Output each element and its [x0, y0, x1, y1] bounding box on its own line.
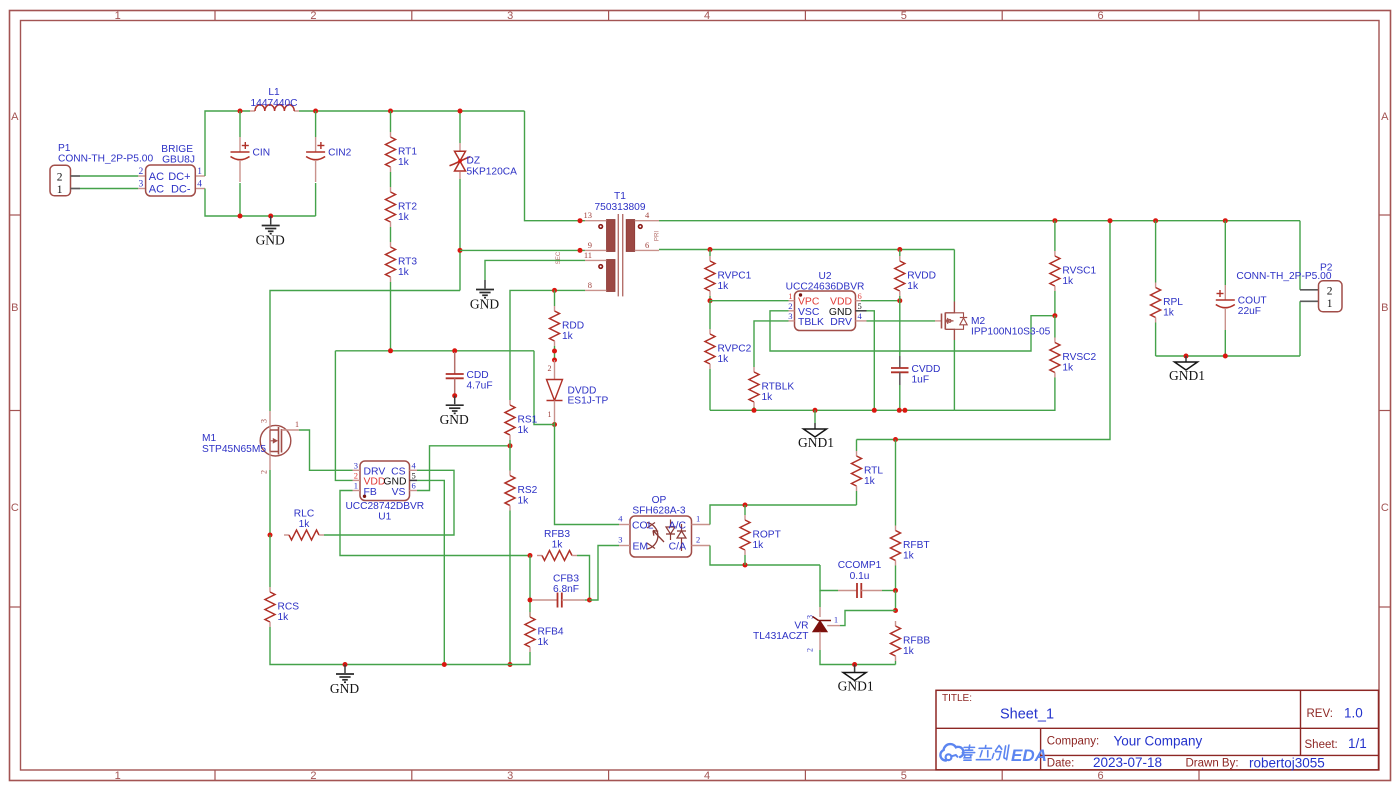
ground GND1 (secondary) — [798, 410, 834, 450]
wire T1 pin8 row — [510, 290, 585, 400]
svg-text:1k: 1k — [903, 551, 915, 562]
svg-text:Drawn By:: Drawn By: — [1186, 758, 1239, 770]
svg-text:2: 2 — [788, 301, 792, 311]
svg-text:UCC24636DBVR: UCC24636DBVR — [786, 282, 865, 293]
svg-text:U1: U1 — [378, 512, 391, 523]
resistor RT2 — [386, 187, 418, 227]
svg-text:DC-: DC- — [171, 184, 191, 196]
svg-text:6: 6 — [1098, 10, 1104, 22]
resistor RLC — [284, 509, 324, 541]
resistor ROPT — [740, 505, 781, 565]
junction node CIN top — [238, 109, 243, 114]
svg-text:CDD: CDD — [467, 370, 489, 381]
svg-text:2023-07-18: 2023-07-18 — [1093, 755, 1162, 770]
svg-text:RS2: RS2 — [518, 485, 538, 496]
ground GND (aux winding) — [470, 280, 499, 312]
svg-text:3: 3 — [138, 180, 143, 190]
svg-text:1: 1 — [57, 184, 63, 196]
wire output return to P2 — [1299, 301, 1301, 356]
svg-text:PRI: PRI — [654, 231, 661, 242]
junction node rail pair — [902, 408, 907, 413]
bridge rectifier BRIGE GBU8J — [138, 144, 205, 196]
resistor RFB3 — [537, 529, 577, 561]
svg-text:5: 5 — [412, 471, 416, 481]
svg-text:1k: 1k — [398, 267, 410, 278]
svg-text:TL431ACZT: TL431ACZT — [753, 631, 808, 642]
svg-text:1k: 1k — [864, 476, 876, 487]
op-amp U1 UCC28742DBVR — [345, 460, 424, 522]
junction node GND1 (VR) — [852, 662, 857, 667]
wire RFB3 right to CFB3 right — [577, 556, 590, 601]
svg-text:1k: 1k — [552, 540, 564, 551]
svg-text:C: C — [1381, 502, 1389, 514]
svg-text:2: 2 — [310, 770, 316, 782]
svg-text:M2: M2 — [971, 316, 985, 327]
svg-text:2: 2 — [696, 535, 700, 545]
resistor RS2 — [505, 471, 538, 511]
svg-text:A/C: A/C — [669, 521, 687, 532]
svg-text:C: C — [11, 502, 19, 514]
junction node VDD — [897, 298, 902, 303]
svg-text:RFB4: RFB4 — [538, 627, 564, 638]
svg-text:OP: OP — [652, 495, 667, 506]
resistor RFB4 — [525, 612, 564, 652]
svg-text:B: B — [1381, 302, 1388, 314]
svg-text:M1: M1 — [202, 433, 216, 444]
wire T1 pin11 to GND — [485, 260, 585, 280]
svg-text:REV:: REV: — [1307, 708, 1333, 720]
svg-text:SFH628A-3: SFH628A-3 — [632, 506, 686, 517]
inductor L1 1447440C — [250, 87, 299, 111]
svg-text:1k: 1k — [762, 392, 774, 403]
wire M2 drain — [953, 250, 955, 302]
svg-text:robertoj3055: robertoj3055 — [1249, 756, 1325, 771]
junction node U2 GND rail — [872, 408, 877, 413]
junction node RS2 bottom — [508, 662, 513, 667]
svg-text:1k: 1k — [278, 612, 290, 623]
junction node feedback rail top — [1108, 218, 1113, 223]
junction node U1 GND rail — [442, 662, 447, 667]
wire U1 VDD riser — [335, 351, 352, 481]
svg-text:CIN2: CIN2 — [328, 148, 352, 159]
svg-text:COL: COL — [632, 521, 654, 532]
svg-text:RVDD: RVDD — [907, 271, 936, 282]
svg-text:9: 9 — [588, 240, 592, 250]
svg-text:RTBLK: RTBLK — [762, 382, 795, 393]
junction node ROPT bottom — [743, 563, 748, 568]
svg-text:1: 1 — [197, 167, 202, 177]
title block Company — [1047, 734, 1203, 749]
svg-text:13: 13 — [584, 210, 593, 220]
wire VDD rail — [335, 350, 534, 352]
junction node RT1 top — [388, 109, 393, 114]
svg-text:T1: T1 — [614, 191, 626, 202]
junction node RPL top — [1153, 218, 1158, 223]
wire VDD rail to DVDD node — [534, 351, 555, 425]
svg-text:1k: 1k — [1062, 276, 1074, 287]
wire U2 GND drop — [867, 311, 875, 411]
ground GND (CDD) — [440, 396, 469, 428]
junction node CIN2 top — [313, 109, 318, 114]
svg-text:SEC: SEC — [555, 251, 562, 264]
svg-text:3: 3 — [618, 535, 622, 545]
svg-text:UCC28742DBVR: UCC28742DBVR — [345, 501, 424, 512]
svg-text:CCOMP1: CCOMP1 — [838, 560, 882, 571]
junction node RFB3 left — [528, 553, 533, 558]
svg-text:TITLE:: TITLE: — [942, 693, 972, 704]
wire RS1 to RS2 — [509, 440, 511, 471]
transistor M2 IPP100N10S3-05 — [935, 302, 1051, 341]
svg-text:1k: 1k — [1062, 363, 1074, 374]
svg-text:1k: 1k — [398, 157, 410, 168]
wire RT2-RT3 — [390, 227, 392, 242]
svg-text:1k: 1k — [518, 425, 530, 436]
wire M1 gate to U1 DRV — [299, 430, 353, 470]
svg-text:RVPC2: RVPC2 — [718, 344, 752, 355]
wire top rail L1 to corner — [299, 110, 525, 112]
wire secondary pin6 rail — [659, 249, 954, 251]
svg-text:RFBT: RFBT — [903, 540, 930, 551]
svg-text:22uF: 22uF — [1238, 306, 1261, 317]
junction node CCOMP1 right — [893, 588, 898, 593]
wire RT3 down to VDD rail — [390, 282, 392, 351]
svg-text:ROPT: ROPT — [753, 530, 781, 541]
svg-text:STP45N65M5: STP45N65M5 — [202, 444, 266, 455]
wire secondary ground rail right — [954, 378, 1055, 411]
wire U1 GND down — [417, 480, 444, 664]
wire M1 source down — [269, 470, 271, 535]
junction node RVSC1 top — [1052, 218, 1057, 223]
title block Sheet — [1305, 736, 1367, 751]
capacitor CCOMP1 0.1u — [820, 560, 896, 598]
svg-text:RFBB: RFBB — [903, 636, 930, 647]
ground GND (input) — [256, 216, 285, 248]
svg-text:CIN: CIN — [253, 148, 271, 159]
svg-text:CFB3: CFB3 — [553, 574, 579, 585]
svg-text:5KP120CA: 5KP120CA — [467, 167, 518, 178]
svg-text:CVDD: CVDD — [912, 364, 941, 375]
wire U1 CS to RLC — [324, 470, 454, 535]
svg-text:AC: AC — [149, 184, 164, 196]
junction node DVDD anode — [552, 358, 557, 363]
wire output bottom rail — [1156, 355, 1300, 357]
junction node CIN bottom — [238, 214, 243, 219]
svg-text:5: 5 — [901, 10, 907, 22]
connector P1 — [50, 143, 153, 196]
svg-text:RDD: RDD — [562, 321, 584, 332]
wire DZ to primary return — [459, 179, 461, 291]
wire RFB3/RFB4 left leg — [529, 556, 531, 618]
svg-text:1: 1 — [115, 10, 121, 22]
svg-text:1k: 1k — [562, 331, 574, 342]
capacitor CDD 4.7uF — [446, 352, 493, 394]
svg-text:Your Company: Your Company — [1114, 734, 1203, 749]
svg-text:750313809: 750313809 — [595, 202, 646, 213]
wire primary return to M1 drain — [270, 291, 460, 412]
junction node RDD bottom — [552, 349, 557, 354]
resistor RS1 — [505, 400, 538, 440]
wire T1 pin9 row — [460, 249, 585, 251]
resistor RCS — [265, 587, 299, 627]
svg-text:GND: GND — [383, 477, 406, 488]
svg-text:6: 6 — [645, 240, 649, 250]
wire DC+ riser — [205, 111, 250, 176]
wire P1 pin2 to bridge — [80, 175, 138, 177]
svg-text:RPL: RPL — [1163, 297, 1183, 308]
diode DVDD ES1J-TP — [547, 360, 609, 422]
wire DC- drop to AC return rail — [205, 189, 240, 217]
svg-text:1k: 1k — [753, 540, 765, 551]
svg-text:4: 4 — [197, 180, 202, 190]
logo JLCEDA — [940, 744, 1047, 765]
junction node CDD bottom — [452, 393, 457, 398]
svg-text:COUT: COUT — [1238, 296, 1267, 307]
svg-text:GND: GND — [440, 412, 469, 427]
wire OP pin1 riser — [710, 505, 857, 525]
svg-text:3: 3 — [507, 10, 513, 22]
svg-text:Date:: Date: — [1047, 758, 1075, 770]
junction node RFBT top — [893, 437, 898, 442]
junction node RTBLK bottom — [752, 408, 757, 413]
svg-text:1k: 1k — [1163, 308, 1175, 319]
junction node T1 pin13 — [578, 218, 583, 223]
svg-text:1: 1 — [696, 514, 700, 524]
shunt reference VR TL431ACZT — [753, 591, 895, 665]
resistor RT3 — [386, 242, 418, 282]
wire U2 VDD to RVDD — [861, 300, 900, 302]
junction node RT3 / VDD rail — [388, 348, 393, 353]
title block Date row — [1047, 755, 1325, 771]
resistor RFBB — [891, 621, 931, 665]
svg-text:Company:: Company: — [1047, 736, 1099, 748]
svg-text:CONN-TH_2P-P5.00: CONN-TH_2P-P5.00 — [58, 154, 153, 165]
wire M2 source to rail — [953, 340, 955, 410]
svg-text:GBU8J: GBU8J — [162, 155, 195, 166]
resistor RFBT — [891, 440, 930, 591]
op-amp U2 UCC24636DBVR — [786, 271, 867, 331]
svg-text:2: 2 — [1327, 285, 1333, 297]
svg-text:RVSC2: RVSC2 — [1062, 352, 1096, 363]
svg-text:1k: 1k — [398, 212, 410, 223]
svg-text:2: 2 — [354, 471, 358, 481]
svg-text:GND: GND — [330, 681, 359, 696]
svg-text:1k: 1k — [299, 519, 311, 530]
capacitor COUT 22uF — [1216, 221, 1267, 356]
wire U1 FB to feedback row — [340, 491, 530, 556]
capacitor CIN — [231, 111, 271, 216]
resistor RVPC1 — [705, 250, 752, 301]
junction node RLC left — [268, 533, 273, 538]
resistor RDD — [550, 290, 585, 360]
frame column numbers bottom — [115, 10, 1104, 22]
junction node CFB3 right — [587, 598, 592, 603]
wire CFB3 to OP emitter — [590, 546, 620, 601]
wire RCS to GND rail — [270, 627, 444, 665]
wire secondary ground rail — [710, 409, 954, 411]
svg-text:0.1u: 0.1u — [850, 571, 870, 582]
svg-text:RVPC1: RVPC1 — [718, 271, 752, 282]
svg-text:3: 3 — [507, 770, 513, 782]
svg-text:2: 2 — [57, 172, 63, 184]
junction node CDD top — [452, 348, 457, 353]
junction node DZ top — [458, 109, 463, 114]
svg-text:1k: 1k — [518, 496, 530, 507]
svg-text:RTL: RTL — [864, 466, 883, 477]
svg-text:RVSC1: RVSC1 — [1062, 266, 1096, 277]
wire U2 TBLK drop — [754, 321, 789, 367]
svg-text:EM: EM — [633, 542, 649, 553]
svg-text:1: 1 — [834, 615, 838, 625]
wire bottom rail to CIN2 — [240, 215, 316, 217]
svg-text:5: 5 — [901, 770, 907, 782]
svg-text:1k: 1k — [907, 281, 919, 292]
svg-text:EDA: EDA — [1011, 746, 1047, 765]
svg-text:5: 5 — [858, 301, 862, 311]
svg-text:B: B — [11, 302, 18, 314]
wire RCS vertical — [269, 535, 271, 587]
wire P1 pin1 to bridge — [80, 188, 138, 190]
transistor M1 STP45N65M5 — [202, 411, 299, 474]
junction node RVPC1 top — [708, 247, 713, 252]
junction node GND rail tap — [343, 662, 348, 667]
svg-text:CONN-TH_2P-P5.00: CONN-TH_2P-P5.00 — [1236, 271, 1331, 282]
wire output rail to P2 — [1299, 221, 1301, 290]
wire GND rail right — [444, 652, 530, 665]
svg-text:1: 1 — [295, 420, 299, 429]
svg-text:GND1: GND1 — [838, 679, 874, 694]
svg-text:4: 4 — [704, 770, 710, 782]
svg-text:2: 2 — [806, 648, 815, 652]
svg-text:A: A — [11, 111, 19, 123]
title block REV — [1307, 706, 1363, 721]
junction node GND1 tap (secondary) — [813, 408, 818, 413]
junction node VSC — [1052, 313, 1057, 318]
svg-text:1: 1 — [354, 481, 358, 491]
svg-text:RLC: RLC — [294, 509, 314, 520]
resistor RVSC2 — [1050, 316, 1097, 378]
junction node ROPT top — [743, 503, 748, 508]
wire feedback top rail — [857, 221, 1111, 440]
svg-text:3: 3 — [788, 311, 792, 321]
resistor RTL — [852, 440, 884, 506]
svg-text:1k: 1k — [718, 354, 730, 365]
svg-text:RCS: RCS — [278, 602, 300, 613]
resistor RT1 — [386, 132, 418, 172]
junction node CVDD bottom — [897, 408, 902, 413]
junction node COUT bottom — [1223, 354, 1228, 359]
svg-text:2: 2 — [260, 470, 269, 474]
resistor RVPC2 — [705, 301, 752, 411]
svg-text:VR: VR — [794, 621, 808, 632]
svg-text:RT3: RT3 — [398, 257, 417, 268]
svg-text:6.8nF: 6.8nF — [553, 584, 579, 595]
svg-text:2: 2 — [310, 10, 316, 22]
resistor RPL — [1151, 221, 1184, 356]
svg-text:VDD: VDD — [364, 477, 386, 488]
svg-text:4: 4 — [704, 10, 710, 22]
junction node DZ / T1 pin9 — [458, 248, 463, 253]
svg-text:AC: AC — [149, 171, 164, 183]
svg-text:3: 3 — [354, 460, 358, 470]
svg-text:1: 1 — [1327, 298, 1333, 310]
svg-text:8: 8 — [588, 280, 592, 290]
svg-text:TBLK: TBLK — [798, 317, 824, 328]
junction node VPC — [708, 298, 713, 303]
junction node DVDD cathode — [552, 422, 557, 427]
svg-text:1k: 1k — [903, 646, 915, 657]
junction node RVDD top — [897, 247, 902, 252]
svg-text:P1: P1 — [58, 143, 71, 154]
title block TITLE — [942, 693, 1054, 723]
svg-text:GND1: GND1 — [798, 435, 834, 450]
ground GND (control) — [330, 665, 359, 697]
svg-text:GND: GND — [470, 297, 499, 312]
svg-text:6: 6 — [412, 481, 416, 491]
svg-text:Sheet:: Sheet: — [1305, 739, 1338, 751]
svg-text:2: 2 — [138, 167, 143, 177]
svg-text:RS1: RS1 — [518, 415, 538, 426]
wire VPC to U2 — [710, 300, 789, 302]
junction node GND tap — [268, 214, 273, 219]
svg-text:DC+: DC+ — [168, 171, 190, 183]
svg-text:IPP100N10S3-05: IPP100N10S3-05 — [971, 327, 1051, 338]
svg-text:1447440C: 1447440C — [250, 98, 297, 109]
wire U2 VSC sense — [770, 311, 1055, 351]
wire U2 DRV to M2 gate — [867, 320, 936, 322]
svg-text:1: 1 — [548, 410, 552, 419]
capacitor CVDD 1uF — [891, 301, 940, 411]
svg-text:C/A: C/A — [669, 542, 686, 553]
svg-text:1: 1 — [115, 770, 121, 782]
svg-text:RT1: RT1 — [398, 147, 417, 158]
junction node T1 pin9 — [578, 248, 583, 253]
svg-text:3: 3 — [260, 419, 269, 423]
svg-text:L1: L1 — [268, 87, 280, 98]
capacitor CFB3 6.8nF — [532, 574, 590, 608]
resistor RVSC1 — [1050, 221, 1097, 316]
svg-text:6: 6 — [1098, 770, 1104, 782]
optocoupler OP SFH628A-3 — [618, 495, 710, 557]
svg-text:2: 2 — [548, 364, 552, 373]
connector P2 — [1236, 263, 1342, 312]
frame row letters — [11, 111, 1389, 514]
svg-text:RFB3: RFB3 — [544, 529, 570, 540]
svg-text:1k: 1k — [718, 281, 730, 292]
wire top rail corner to T1 pin13 — [525, 111, 586, 221]
svg-text:11: 11 — [584, 250, 592, 260]
svg-text:GND1: GND1 — [1169, 368, 1205, 383]
title block box — [936, 690, 1379, 770]
wire DVDD cathode to OP collector — [555, 422, 620, 525]
svg-text:Sheet_1: Sheet_1 — [1000, 707, 1054, 723]
svg-text:1/1: 1/1 — [1348, 736, 1367, 751]
junction node GND1 output — [1184, 354, 1189, 359]
junction node VR ref — [893, 608, 898, 613]
svg-text:GND: GND — [256, 233, 285, 248]
wire RT1 stub to rail — [390, 111, 392, 132]
svg-text:DRV: DRV — [830, 317, 852, 328]
capacitor CIN2 — [306, 111, 352, 216]
wire RFBT/RFBB mid — [895, 591, 897, 611]
svg-text:A: A — [1381, 111, 1389, 123]
ground GND1 (output) — [1169, 356, 1205, 383]
junction node CFB3 left — [528, 598, 533, 603]
wire RT1-RT2 — [390, 172, 392, 187]
TVS diode DZ 5KP120CA — [450, 111, 518, 179]
svg-text:VS: VS — [392, 487, 406, 498]
wire secondary pin4 rail — [659, 220, 1300, 222]
svg-text:1uF: 1uF — [912, 375, 930, 386]
